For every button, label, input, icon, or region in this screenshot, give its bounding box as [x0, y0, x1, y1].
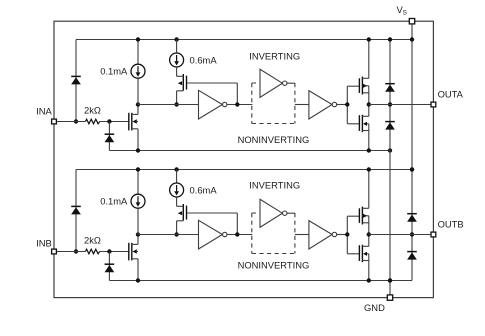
- svg-text:GND: GND: [364, 302, 385, 313]
- node option box B (dashed): [251, 213, 253, 254]
- node diode column rail tap B: [410, 167, 414, 171]
- node diode column output tap A: [388, 102, 392, 106]
- wire I2B to M2B: [176, 197, 178, 206]
- transistor M4A output N-MOSFET: [358, 115, 360, 131]
- svg-text:NONINVERTING: NONINVERTING: [238, 259, 310, 270]
- wire clamp diode column A: [389, 40, 391, 151]
- current source I1B 0.1mA: [131, 194, 145, 208]
- wire rail to I1B: [137, 170, 139, 195]
- diode D1B input-to-rail clamp: [71, 205, 81, 207]
- resistor R1A 2k: [85, 119, 99, 124]
- diode D4B ground-to-output clamp: [407, 251, 417, 253]
- node M4A source to ground: [367, 148, 371, 152]
- node diode column rail tap A: [388, 37, 392, 41]
- transistor M2B hysteresis P-MOSFET: [182, 204, 184, 221]
- node M3B rail tap: [367, 167, 371, 171]
- wire output gate column B: [346, 216, 348, 254]
- wire box out B: [295, 234, 309, 236]
- diode D2A ground-to-input clamp: [105, 133, 115, 135]
- node Vs to rail A: [410, 37, 414, 41]
- diode D2B ground-to-input clamp: [105, 263, 115, 265]
- wire ground rail B: [109, 280, 412, 282]
- wire output line A: [369, 104, 434, 106]
- diode D3A output-to-rail clamp: [385, 83, 395, 85]
- node output midpoint A: [367, 102, 371, 106]
- pin OUTB: [431, 232, 436, 237]
- node ground rail to GND feed A: [388, 148, 392, 152]
- op-amp U1B first inverter: [199, 220, 223, 249]
- op-amp U2B optional inverter: [260, 199, 282, 227]
- svg-text:INB: INB: [36, 238, 52, 249]
- op-amp U3A output inverter: [309, 91, 332, 119]
- wire input lead B: [54, 251, 85, 253]
- pin GND: [387, 295, 392, 300]
- wire I1A to drain node: [137, 78, 139, 104]
- node I1B rail tap: [136, 167, 140, 171]
- wire I1B to drain node: [137, 208, 139, 234]
- node option box A (dashed): [251, 83, 253, 124]
- wire Vs supply column: [411, 21, 413, 169]
- node diode column output tap B: [410, 232, 414, 236]
- wire drain node to U1A: [138, 104, 199, 106]
- node input node A: [107, 119, 111, 123]
- svg-text:NONINVERTING: NONINVERTING: [238, 134, 310, 145]
- wire left clamp branch A: [75, 40, 77, 122]
- wire output line B: [369, 234, 434, 236]
- node M1A drain: [136, 102, 140, 106]
- transistor M1A input N-MOSFET: [128, 113, 130, 131]
- node I2B rail tap: [174, 167, 178, 171]
- wire top supply rail B: [76, 169, 412, 171]
- pin INB: [52, 249, 57, 254]
- node gate column B: [345, 232, 349, 236]
- transistor M1B input N-MOSFET: [128, 243, 130, 261]
- wire resistor to gate A: [100, 121, 129, 123]
- pin Vs: [409, 19, 414, 24]
- node GND feed to ground rail B: [388, 278, 392, 282]
- diode D3B output-to-rail clamp: [407, 213, 417, 215]
- wire box out A: [295, 104, 309, 106]
- pin INA: [52, 119, 57, 124]
- wire U2A out to box corner: [287, 82, 295, 84]
- node input node B: [107, 249, 111, 253]
- node M4B source to ground: [367, 278, 371, 282]
- diode D1A input-to-rail clamp: [71, 75, 81, 77]
- wire I2A to M2A: [176, 67, 178, 76]
- transistor M3A output P-MOSFET: [358, 78, 360, 93]
- op-amp U3B output inverter: [309, 221, 332, 249]
- svg-text:0.6mA: 0.6mA: [190, 55, 218, 66]
- node feedback junction B: [235, 232, 239, 236]
- wire U2B out to box corner: [287, 212, 295, 214]
- diode D4A ground-to-output clamp: [385, 121, 395, 123]
- wire rail to I2B: [176, 170, 178, 184]
- node I2A rail tap: [174, 37, 178, 41]
- wire output gate column A: [346, 86, 348, 124]
- current source I2B 0.6mA: [170, 183, 184, 197]
- IC outline: [54, 21, 433, 297]
- node ground rail GND feed B: [388, 278, 392, 282]
- wire input-to-ground branch A: [108, 122, 110, 151]
- svg-text:INA: INA: [36, 106, 52, 117]
- svg-text:2kΩ: 2kΩ: [84, 235, 101, 246]
- node M1A source to ground: [136, 148, 140, 152]
- current source I1A 0.1mA: [131, 64, 145, 78]
- wire M2A gate feedback: [187, 82, 238, 84]
- node M1B drain: [136, 232, 140, 236]
- pin OUTA: [431, 102, 436, 107]
- node output midpoint B: [367, 232, 371, 236]
- svg-text:OUTA: OUTA: [438, 88, 464, 99]
- svg-text:INVERTING: INVERTING: [249, 179, 300, 190]
- transistor M3B output P-MOSFET: [358, 208, 360, 223]
- wire drain node to U1B: [138, 234, 199, 236]
- resistor R1B 2k: [85, 249, 99, 254]
- svg-text:0.1mA: 0.1mA: [100, 65, 128, 76]
- svg-text:OUTB: OUTB: [438, 218, 464, 229]
- transistor M2A hysteresis P-MOSFET: [182, 74, 184, 91]
- node Vs to rail B: [410, 167, 414, 171]
- node feedback junction A: [235, 102, 239, 106]
- op-amp U2A optional inverter: [260, 69, 282, 97]
- wire input lead A: [54, 121, 85, 123]
- wire top supply rail A: [76, 39, 412, 41]
- node input clamp junction A: [74, 119, 78, 123]
- svg-text:INVERTING: INVERTING: [249, 50, 300, 61]
- node M1B source to ground: [136, 278, 140, 282]
- wire U1A out: [227, 104, 253, 106]
- transistor M4B output N-MOSFET: [358, 245, 360, 261]
- current source I2A 0.6mA: [170, 53, 184, 67]
- wire U1B out: [227, 234, 253, 236]
- wire rail to I2A: [176, 40, 178, 54]
- svg-text:S: S: [403, 10, 407, 17]
- node I1A rail tap: [136, 37, 140, 41]
- wire ground rail A: [109, 150, 390, 152]
- wire U3A out to gates: [337, 104, 348, 106]
- wire input-to-ground branch B: [108, 252, 110, 281]
- svg-text:0.6mA: 0.6mA: [190, 185, 218, 196]
- svg-text:2kΩ: 2kΩ: [84, 105, 101, 116]
- wire U3B out to gates: [337, 234, 348, 236]
- node input clamp junction B: [74, 249, 78, 253]
- wire left clamp branch B: [75, 170, 77, 252]
- wire rail to I1A: [137, 40, 139, 65]
- wire M2B gate feedback: [187, 212, 238, 214]
- node M2B drain junction: [174, 232, 178, 236]
- svg-text:0.1mA: 0.1mA: [100, 195, 128, 206]
- node M2A drain junction: [174, 102, 178, 106]
- wire clamp diode column B: [411, 170, 413, 281]
- wire GND feed column: [389, 151, 391, 298]
- node gate column A: [345, 102, 349, 106]
- node M3A rail tap: [367, 37, 371, 41]
- op-amp U1A first inverter: [199, 90, 223, 119]
- wire resistor to gate B: [100, 251, 129, 253]
